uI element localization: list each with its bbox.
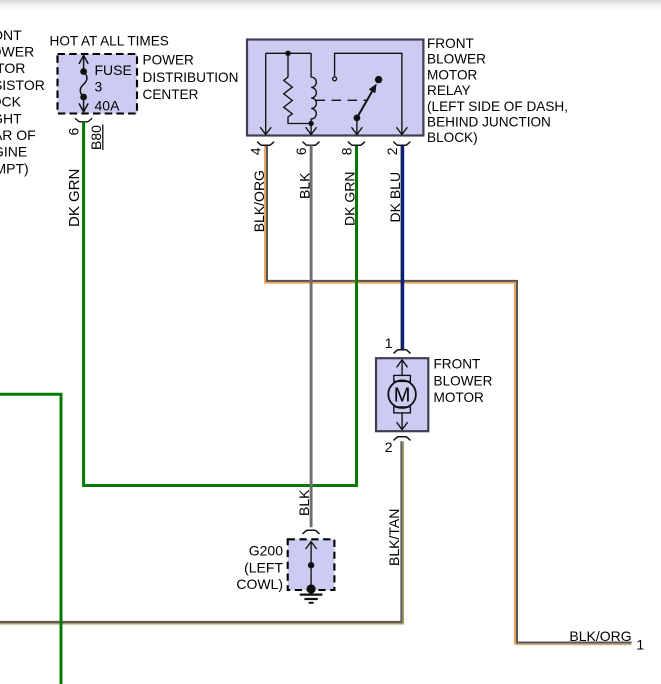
relay: FRONT BLOWER MOTOR RELAY box bbox=[247, 40, 423, 136]
svg-text:RELAY: RELAY bbox=[427, 83, 471, 98]
junction dot bbox=[285, 51, 290, 56]
svg-text:BEHIND JUNCTION: BEHIND JUNCTION bbox=[427, 115, 551, 130]
relay internal: switch top wire bbox=[335, 53, 402, 134]
wire DK GRN: fuse pin6 down, right, up to relay pin 8 bbox=[84, 122, 357, 486]
svg-text:MOTOR: MOTOR bbox=[434, 390, 485, 405]
svg-text:6: 6 bbox=[293, 147, 309, 155]
svg-text:BLOWER: BLOWER bbox=[0, 44, 34, 60]
switch arm pivot dot bbox=[354, 115, 361, 122]
switch pivot contact (open circle) bbox=[333, 77, 337, 81]
motor internal arrow up bbox=[397, 360, 408, 376]
G200 label bbox=[236, 543, 283, 593]
svg-text:BLK/TAN: BLK/TAN bbox=[386, 509, 402, 566]
wire DK BLU: relay pin2 down to motor pin1 bbox=[401, 145, 405, 349]
svg-text:(LEFT SIDE OF DASH,: (LEFT SIDE OF DASH, bbox=[427, 99, 568, 114]
connector cup above motor bbox=[394, 350, 411, 354]
switch contact dot bbox=[375, 76, 382, 83]
relay internal: resistor (parallel) bbox=[284, 53, 311, 123]
svg-text:FRONT: FRONT bbox=[427, 36, 474, 51]
connector cup below fuse bbox=[75, 118, 92, 122]
relay internal: pin8 leg with arrow bbox=[351, 118, 362, 135]
motor internal arrow down bbox=[397, 413, 408, 430]
motor label FRONT BLOWER MOTOR bbox=[434, 357, 493, 405]
motor brush lower bbox=[394, 407, 411, 413]
svg-text:COWL): COWL) bbox=[236, 576, 283, 592]
svg-text:HOT AT ALL TIMES: HOT AT ALL TIMES bbox=[50, 34, 169, 49]
svg-text:1: 1 bbox=[385, 335, 393, 351]
wire: left green branch to resistor block (clipped) bbox=[0, 394, 61, 684]
svg-text:FRONT: FRONT bbox=[0, 27, 22, 43]
svg-text:BLOCK): BLOCK) bbox=[427, 130, 478, 145]
fuse value label FUSE 3 40A bbox=[95, 62, 132, 113]
relay internal: pin4 leg with arrow bbox=[260, 53, 271, 134]
svg-text:40A: 40A bbox=[95, 98, 121, 114]
wire BLK/ORG: relay pin4 down, right, down, right to connector 1 (two-tone) bbox=[267, 145, 632, 642]
wire BLK/TAN: motor pin2 down, left to edge (two-tone) bbox=[0, 441, 401, 622]
svg-text:6: 6 bbox=[66, 128, 82, 136]
G200 internal arrow up and wire bbox=[306, 542, 317, 589]
svg-text:POWER: POWER bbox=[143, 53, 195, 68]
svg-text:(LEFT: (LEFT bbox=[244, 559, 283, 575]
svg-text:DK GRN: DK GRN bbox=[66, 169, 83, 227]
relay internal: top wire bbox=[266, 52, 311, 54]
svg-text:ENGINE: ENGINE bbox=[0, 144, 27, 160]
connector cup above G200 bbox=[303, 530, 320, 534]
label POWER DISTRIBUTION CENTER bbox=[143, 53, 239, 102]
svg-text:BLOWER: BLOWER bbox=[427, 52, 486, 67]
relay label FRONT BLOWER MOTOR RELAY (LEFT SIDE OF DASH, BEHIND JUNCTION BLOCK) bbox=[427, 36, 568, 145]
connector cup below motor bbox=[394, 437, 411, 441]
svg-text:M: M bbox=[394, 385, 411, 407]
relay internal: pin6 leg with arrow bbox=[306, 124, 317, 135]
motor armature circle with M bbox=[388, 380, 416, 408]
relay internal: coil winding bbox=[311, 53, 316, 123]
ground symbol bbox=[300, 595, 323, 603]
svg-text:MOTOR: MOTOR bbox=[0, 60, 25, 76]
svg-text:DK GRN: DK GRN bbox=[342, 172, 358, 226]
svg-text:BLOCK: BLOCK bbox=[0, 94, 22, 110]
svg-text:BLK: BLK bbox=[296, 172, 312, 199]
svg-text:B80: B80 bbox=[88, 125, 104, 150]
svg-text:1: 1 bbox=[636, 637, 644, 653]
dashed mechanical link bbox=[316, 99, 367, 101]
connector cups below relay pins 4 6 8 2 bbox=[257, 142, 410, 146]
ground G200 box bbox=[288, 539, 335, 590]
wire BLK: relay pin6 down to G200 bbox=[310, 145, 313, 527]
motor M: FRONT BLOWER MOTOR box bbox=[376, 358, 428, 431]
switch arm bbox=[357, 88, 374, 118]
svg-text:3: 3 bbox=[95, 78, 103, 94]
svg-text:BLK/ORG: BLK/ORG bbox=[569, 628, 631, 644]
svg-text:REAR OF: REAR OF bbox=[0, 127, 36, 143]
G200 ground dot bbox=[307, 584, 316, 593]
svg-text:CENTER: CENTER bbox=[143, 87, 199, 102]
svg-text:(RIGHT: (RIGHT bbox=[0, 110, 22, 126]
svg-text:8: 8 bbox=[338, 147, 354, 155]
svg-text:RESISTOR: RESISTOR bbox=[0, 77, 45, 93]
svg-text:2: 2 bbox=[385, 439, 393, 455]
fuse F3 40A element bbox=[79, 55, 88, 112]
svg-text:COMPT): COMPT) bbox=[0, 160, 29, 176]
svg-text:FRONT: FRONT bbox=[434, 357, 481, 372]
svg-text:BLK: BLK bbox=[296, 489, 312, 516]
svg-text:2: 2 bbox=[384, 147, 400, 155]
svg-text:G200: G200 bbox=[249, 543, 283, 559]
pin2 arrow bbox=[396, 127, 407, 134]
svg-text:FUSE: FUSE bbox=[95, 62, 132, 78]
G200 junction dot bbox=[308, 562, 314, 568]
svg-text:4: 4 bbox=[248, 147, 264, 155]
svg-text:MOTOR: MOTOR bbox=[427, 67, 478, 82]
fuse box: power distribution center (dashed) bbox=[58, 54, 138, 114]
svg-text:BLOWER: BLOWER bbox=[434, 373, 493, 388]
note: FRONT BLOWER MOTOR RESISTOR BLOCK (RIGHT REAR OF ENGINE COMPT) clipped text bbox=[0, 27, 45, 177]
svg-text:DK BLU: DK BLU bbox=[387, 172, 403, 223]
svg-text:BLK/ORG: BLK/ORG bbox=[251, 170, 267, 232]
svg-text:DISTRIBUTION: DISTRIBUTION bbox=[143, 70, 239, 85]
motor brush upper bbox=[394, 375, 411, 381]
junction dot at coil bottom bbox=[308, 121, 313, 126]
